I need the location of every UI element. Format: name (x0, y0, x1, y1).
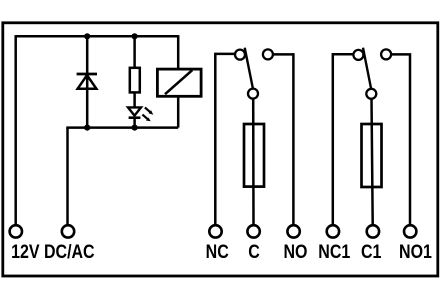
svg-text:NC: NC (206, 241, 229, 263)
contact NC fixed (235, 50, 245, 60)
contact NO fixed (263, 49, 273, 59)
wire: DC/AC vertical (66, 128, 69, 225)
svg-text:C1: C1 (361, 241, 382, 263)
terminal NO (287, 225, 299, 237)
wire: NC branch (215, 54, 234, 224)
wire: left vertical to 12V terminal (14, 35, 17, 224)
terminal C1 (367, 225, 379, 237)
terminal NC1 (327, 225, 339, 237)
terminal NC (209, 225, 221, 237)
svg-text:12V DC/AC: 12V DC/AC (11, 241, 95, 263)
wire: resistor/LED branch top (133, 36, 136, 68)
terminal C (247, 225, 259, 237)
terminal 12V (10, 225, 22, 237)
svg-text:NO: NO (284, 241, 308, 263)
switch arm contact 2 (363, 48, 371, 89)
contact C1 common (366, 89, 376, 99)
wire: between resistor and LED (133, 92, 136, 108)
svg-text:C: C (248, 241, 260, 263)
relay coil K1 (157, 69, 201, 96)
wire: bottom return bus (66, 126, 178, 129)
wire: coil feed vertical (177, 35, 180, 69)
fuse F2 (362, 124, 382, 187)
diode D1 (77, 74, 97, 89)
LED light arrow lower (142, 115, 150, 122)
LED light arrow upper (145, 108, 153, 115)
node: top diode junction (84, 33, 90, 39)
wire: NO branch (273, 54, 293, 224)
switch arm contact 1 (245, 48, 253, 89)
wire: C1 to fuse to terminal (372, 99, 373, 224)
contact NO1 fixed (381, 49, 391, 59)
wire: NO1 branch (391, 54, 410, 224)
resistor R1 (130, 68, 140, 93)
wire: coil top bus (16, 35, 179, 38)
svg-text:NO1: NO1 (399, 241, 432, 263)
contact C common (248, 89, 258, 99)
wire: NC1 branch (333, 54, 353, 224)
wire: diode branch (86, 36, 89, 127)
terminal NO1 (404, 225, 416, 237)
terminal DC/AC (62, 225, 74, 237)
LED D2 (128, 107, 141, 117)
wire: LED to bottom bus (133, 118, 136, 128)
fuse F1 (244, 124, 264, 187)
node: top LED junction (132, 33, 138, 39)
node: bottom LED junction (132, 125, 138, 131)
wire: coil to bottom bus (177, 96, 180, 127)
contact NC1 fixed (353, 50, 363, 60)
svg-text:NC1: NC1 (318, 241, 350, 263)
node: bottom diode junction (84, 125, 90, 131)
wire: C to fuse to terminal (252, 99, 255, 225)
